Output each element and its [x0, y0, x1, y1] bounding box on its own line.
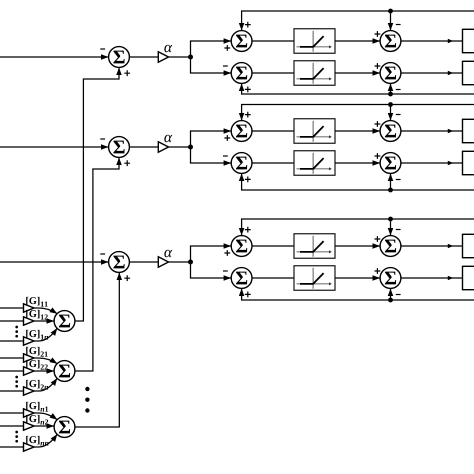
node bottom junction group 3 [388, 289, 401, 303]
output block B21 [463, 119, 474, 142]
summing junction S3 [109, 252, 130, 273]
input wire Gn1 [0, 412, 24, 414]
ellipsis [15, 431, 18, 443]
input wire G21 [0, 357, 24, 359]
node top junction group 2 [388, 102, 401, 120]
wire [34, 328, 57, 341]
gain block Gn1 [24, 402, 49, 417]
wire [335, 121, 380, 131]
summing junction U31b [380, 236, 401, 257]
feedback wire top group 2 [242, 105, 474, 121]
gain alpha A1 [158, 45, 172, 62]
output block B12 [463, 61, 474, 84]
wire branch upper [191, 246, 231, 262]
saturation block SAT11 [294, 29, 335, 54]
input wire G22 [0, 370, 24, 372]
summing junction U22b [380, 153, 401, 174]
input wire G1n [0, 340, 24, 342]
wire [401, 71, 463, 75]
wire [129, 261, 158, 263]
summing junction S2 [109, 137, 130, 158]
summing junction S1 [109, 47, 130, 68]
node N2 [188, 145, 193, 150]
wire [169, 146, 191, 148]
input wire In3 [0, 253, 108, 262]
wire [401, 39, 463, 43]
gain block G22 [24, 360, 48, 375]
summing junction U31a [231, 236, 252, 257]
feedback wire top group 1 [242, 11, 474, 30]
wire branch lower [191, 262, 231, 278]
gain block G1n [24, 330, 49, 345]
saturation block SAT31 [294, 234, 335, 259]
wire [401, 244, 463, 248]
wire [401, 161, 463, 165]
plus sign S2 bottom input [124, 160, 130, 166]
wire [401, 129, 463, 133]
summing junction SG2 [54, 361, 75, 382]
wire [129, 146, 158, 148]
saturation block SAT12 [294, 61, 335, 86]
summing junction U22a [231, 153, 252, 174]
output block B31 [463, 234, 474, 257]
wire [34, 434, 57, 447]
wire [335, 63, 380, 73]
summing junction U32a [231, 268, 252, 289]
wire [335, 236, 380, 246]
node N1 [188, 55, 193, 60]
summing junction U21a [231, 121, 252, 142]
input wire In1 [0, 48, 108, 57]
input wire In2 [0, 138, 108, 147]
gain block G11 [24, 297, 48, 312]
input wire Gnn [0, 446, 24, 448]
wire branch lower [191, 57, 231, 73]
input wire G12 [0, 320, 24, 322]
wire branch lower [191, 147, 231, 163]
wire [252, 162, 294, 164]
saturation block SAT22 [294, 151, 335, 176]
summing junction SG1 [54, 311, 75, 332]
ellipsis [15, 326, 18, 338]
summing junction U11b [380, 31, 401, 52]
ellipsis [15, 376, 18, 388]
node bottom junction group 1 [388, 84, 401, 97]
wire [252, 40, 294, 42]
plus sign S1 bottom input [124, 70, 130, 76]
plus sign S3 bottom input [124, 275, 130, 281]
output block B22 [463, 151, 474, 174]
input wire G11 [0, 307, 24, 309]
ellipsis between SG2 and SGn [85, 387, 89, 413]
node N3 [188, 260, 193, 265]
feedback wire SG1 to S1 [75, 68, 119, 321]
wire [252, 245, 294, 247]
wire [252, 72, 294, 74]
gain block G12 [24, 310, 48, 325]
wire [169, 56, 191, 58]
feedback wire bottom group 3 [242, 289, 474, 300]
wire [34, 378, 57, 391]
wire [335, 268, 380, 278]
wire [401, 276, 463, 280]
wire [34, 425, 54, 427]
summing junction U32b [380, 268, 401, 289]
gain alpha A2 [158, 135, 172, 152]
node top junction group 1 [388, 9, 401, 31]
wire branch upper [191, 131, 231, 147]
summing junction U12b [380, 63, 401, 84]
node top junction group 3 [388, 217, 401, 236]
node bottom junction group 2 [388, 174, 401, 193]
summing junction SG3 [54, 417, 75, 438]
summing junction U12a [231, 63, 252, 84]
feedback wire top group 3 [242, 219, 474, 235]
wire [252, 277, 294, 279]
wire [34, 358, 57, 364]
feedback wire bottom group 2 [242, 174, 474, 190]
wire [335, 153, 380, 163]
gain block Gn2 [24, 415, 49, 430]
gain block Gnn [24, 436, 49, 451]
wire [34, 370, 54, 372]
wire branch upper [191, 41, 231, 57]
feedback wire SG2 to S2 [75, 158, 119, 371]
input wire G2n [0, 390, 24, 392]
saturation block SAT21 [294, 119, 335, 144]
wire [169, 261, 191, 263]
gain alpha A3 [158, 250, 172, 267]
wire [252, 130, 294, 132]
saturation block SAT32 [294, 266, 335, 291]
feedback wire bottom group 1 [242, 84, 474, 94]
input wire Gn2 [0, 425, 24, 427]
gain block G2n [24, 380, 49, 395]
wire [335, 31, 380, 41]
output block B32 [463, 266, 474, 289]
feedback wire SGn to S3 [75, 273, 119, 427]
output block B11 [463, 29, 474, 52]
wire [129, 56, 158, 58]
wire [34, 308, 57, 314]
wire [34, 413, 57, 420]
wire [34, 320, 54, 322]
summing junction U21b [380, 121, 401, 142]
summing junction U11a [231, 31, 252, 52]
gain block G21 [24, 347, 48, 362]
